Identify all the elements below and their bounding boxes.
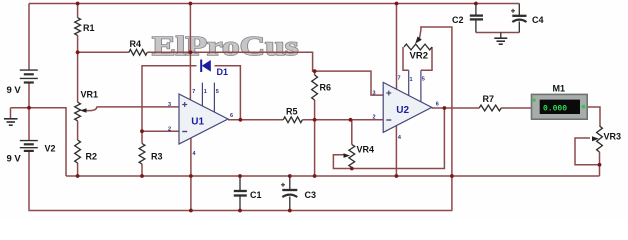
svg-text:7: 7	[398, 76, 401, 82]
pin 6 (U2)	[436, 102, 439, 108]
svg-text:V2: V2	[45, 144, 56, 154]
label R1	[83, 23, 95, 33]
label D1	[217, 67, 229, 77]
wire U1 output / R5 to U2 inverting input	[228, 119, 383, 121]
svg-text:2: 2	[373, 115, 376, 121]
potentiometer VR2	[404, 36, 432, 50]
pin 2 (U2)	[373, 115, 376, 121]
label R5	[286, 107, 298, 117]
svg-text:VR1: VR1	[81, 90, 99, 100]
svg-text:R5: R5	[286, 107, 298, 117]
svg-text:VR3: VR3	[604, 132, 622, 142]
pin 1 (U2)	[410, 77, 413, 83]
pin 5 (U1)	[216, 89, 219, 95]
svg-text:VR4: VR4	[357, 145, 375, 155]
pin 7 (U2)	[398, 76, 401, 82]
multimeter M1	[532, 94, 588, 119]
pin 6 (U1)	[230, 113, 233, 119]
resistor R4	[129, 49, 147, 55]
ground (C2 C4)	[494, 33, 507, 45]
pin 3 (U2)	[373, 91, 376, 97]
svg-text:U2: U2	[396, 105, 409, 116]
wire VR4 wiper loop to U2 output	[333, 108, 444, 169]
capacitor C3	[281, 176, 297, 211]
svg-text:R1: R1	[83, 23, 95, 33]
label VR2	[410, 50, 428, 61]
resistor R3	[139, 144, 145, 165]
potentiometer VR3	[592, 126, 602, 152]
svg-text:C1: C1	[250, 190, 262, 200]
svg-text:M1: M1	[553, 84, 566, 94]
svg-text:C2: C2	[452, 15, 464, 25]
battery V1 9V	[20, 70, 38, 82]
potentiometer VR1	[75, 102, 87, 121]
potentiometer VR4	[344, 145, 355, 168]
wire top V+ rail	[29, 3, 519, 5]
op-amp U1	[179, 83, 228, 144]
pin 3 (U1)	[168, 102, 171, 108]
pin 7 (U1)	[192, 89, 195, 95]
diode D1	[201, 60, 211, 73]
svg-text:R3: R3	[151, 152, 163, 162]
label V2	[45, 144, 56, 154]
label C3	[305, 190, 317, 200]
svg-text:U1: U1	[191, 116, 204, 127]
pin 2 (U1)	[168, 127, 171, 133]
label C2	[452, 15, 464, 25]
label R3	[151, 152, 163, 162]
wire U1 feedback loop with D1	[142, 66, 240, 131]
label C4	[532, 15, 544, 25]
label R4	[130, 39, 142, 49]
wire bottom rail 1	[66, 175, 600, 177]
label U2	[396, 105, 409, 116]
wire R4 to U2 noninverting input	[78, 52, 384, 95]
capacitor C4	[511, 4, 527, 33]
svg-text:R4: R4	[130, 39, 142, 49]
svg-text:VR2: VR2	[410, 50, 428, 61]
svg-text:D1: D1	[217, 67, 229, 77]
watermark ElProCus	[152, 31, 299, 61]
label R2	[86, 152, 98, 162]
svg-text:R6: R6	[320, 83, 332, 93]
resistor R5	[283, 117, 302, 123]
svg-text:5: 5	[422, 77, 425, 83]
wire R3 column	[141, 131, 143, 176]
svg-text:2: 2	[168, 127, 171, 133]
ground (battery)	[4, 119, 18, 125]
wire R7 to M1	[501, 107, 531, 109]
label 9 V (battery V2)	[7, 154, 22, 165]
label U1	[191, 116, 204, 127]
wire U1 inverting input	[142, 130, 179, 132]
svg-text:C4: C4	[532, 15, 544, 25]
label 9 V (battery V1)	[7, 85, 22, 96]
svg-text:R2: R2	[86, 152, 98, 162]
svg-text:ElProCus: ElProCus	[152, 31, 299, 61]
svg-text:3: 3	[373, 91, 376, 97]
battery V2 9V	[20, 141, 38, 151]
wire R1/VR1/R2 column	[77, 4, 79, 177]
wire ground branch	[11, 108, 67, 176]
wire bottom rail 2	[28, 210, 452, 212]
svg-text:5: 5	[216, 89, 219, 95]
resistor R6	[312, 75, 318, 100]
label C1	[250, 190, 262, 200]
wire VR3 wiper loop	[575, 138, 600, 165]
wire U2 output to R7	[432, 107, 480, 109]
svg-text:9 V: 9 V	[7, 85, 22, 96]
wire VR2 wiper to bottom rail	[420, 27, 452, 211]
wire VR1 wiper to U1 +	[86, 107, 180, 111]
label VR4	[357, 145, 375, 155]
wire left battery rail	[28, 4, 30, 210]
pin 1 (U1)	[204, 89, 207, 95]
wire M1 to VR3	[587, 107, 600, 126]
wire VR4 top	[351, 120, 353, 145]
wire V+ to U2 pin7	[396, 4, 398, 90]
resistor R1	[75, 18, 81, 36]
svg-text:9 V: 9 V	[7, 154, 22, 165]
label M1	[553, 84, 566, 94]
svg-text:6: 6	[230, 113, 233, 119]
op-amp U2	[383, 70, 432, 132]
svg-text:1: 1	[204, 89, 207, 95]
svg-text:3: 3	[168, 102, 171, 108]
label R6	[320, 83, 332, 93]
wire C2/C4 bottom link	[476, 32, 519, 34]
wire R6 column	[314, 71, 316, 176]
capacitor C2	[470, 4, 483, 33]
label VR1	[81, 90, 99, 100]
svg-text:R7: R7	[483, 94, 495, 104]
wire V+ to U1 pin7	[189, 4, 191, 101]
svg-text:0.000: 0.000	[543, 104, 567, 113]
wire U2 pin4 to ground rail	[395, 126, 397, 176]
pin 4 (U1)	[193, 151, 197, 157]
pin 4 (U2)	[398, 135, 402, 141]
wire VR3 bottom	[599, 152, 601, 176]
resistor R7	[479, 105, 501, 111]
wire VR2 legs	[403, 47, 432, 70]
wire U1 pin4 to ground rails	[190, 138, 192, 211]
label VR3	[604, 132, 622, 142]
pin 5 (U2)	[422, 77, 425, 83]
label R7	[483, 94, 495, 104]
svg-text:C3: C3	[305, 190, 317, 200]
capacitor C1	[234, 176, 247, 211]
svg-text:1: 1	[410, 77, 413, 83]
svg-text:6: 6	[436, 102, 439, 108]
resistor R2	[75, 140, 81, 163]
svg-text:7: 7	[192, 89, 195, 95]
